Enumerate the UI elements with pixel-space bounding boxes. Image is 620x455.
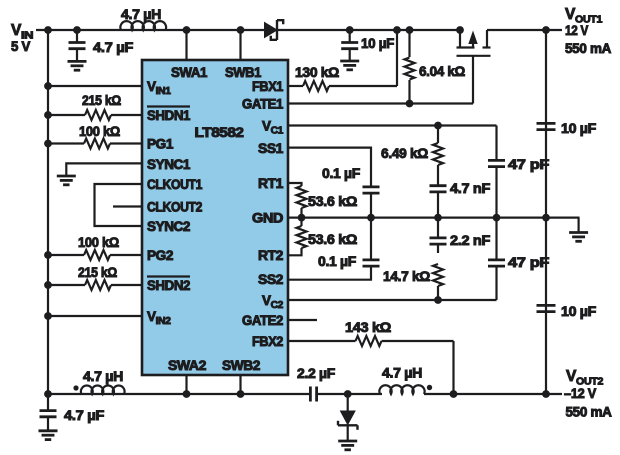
- wire VIN1: [48, 85, 142, 87]
- pin PG1 label: [147, 137, 174, 152]
- svg-text:0.1 µF: 0.1 µF: [322, 166, 360, 181]
- junction SWA2: [183, 390, 191, 398]
- pin SYNC2 label: [147, 219, 190, 234]
- junction GND-output-caps: [542, 214, 550, 222]
- pin FBX2 label: [252, 334, 283, 349]
- wire GATE2 stub: [288, 319, 317, 321]
- svg-text:550 mA: 550 mA: [565, 41, 612, 56]
- svg-text:4.7 nF: 4.7 nF: [450, 181, 490, 196]
- svg-text:100 kΩ: 100 kΩ: [79, 124, 120, 139]
- wire VC2: [288, 299, 497, 301]
- junction GND-SS: [367, 214, 375, 222]
- junction SHDN1: [44, 111, 52, 119]
- resistor R7 215k SHDN1: [48, 93, 142, 120]
- svg-text:VOUT2: VOUT2: [566, 368, 604, 387]
- svg-text:GND: GND: [252, 211, 284, 226]
- pin SWB2 label: [222, 358, 260, 373]
- svg-text:CLKOUT2: CLKOUT2: [147, 200, 202, 215]
- wire bottom rail mid: [317, 393, 382, 395]
- svg-text:215 kΩ: 215 kΩ: [82, 93, 121, 108]
- wire diode cathode to PMOS source: [277, 29, 460, 31]
- svg-text:PG1: PG1: [147, 137, 174, 152]
- op-amp U1 LT8582 body: [142, 60, 288, 375]
- pin SWA2 label: [168, 358, 206, 373]
- svg-text:GATE2: GATE2: [242, 313, 283, 328]
- svg-text:PG2: PG2: [147, 248, 173, 263]
- ground GND net: [569, 218, 588, 242]
- pin FBX1 label: [252, 79, 284, 94]
- svg-text:SS1: SS1: [258, 141, 284, 156]
- svg-text:2.2 nF: 2.2 nF: [450, 233, 490, 248]
- pin SHDN2 label: [147, 277, 190, 294]
- junction R2 top: [406, 26, 414, 34]
- pin SWA1 label: [171, 65, 208, 80]
- wire SYNC1 to ground: [66, 163, 142, 176]
- svg-text:LT8582: LT8582: [195, 125, 244, 140]
- capacitor C3 10uF out1: [537, 121, 597, 136]
- capacitor C11 2.2uF coupling: [297, 366, 335, 402]
- wire VIN top rail: [36, 29, 265, 31]
- ground C2: [340, 61, 359, 70]
- junction GND-RT: [298, 214, 306, 222]
- wire PMOS drain to VOUT1: [487, 29, 562, 31]
- wire SWB1 stub: [239, 30, 241, 60]
- capacitor C6 0.1uF SS1: [288, 148, 380, 218]
- svg-text:SWB2: SWB2: [222, 358, 260, 373]
- svg-text:FBX1: FBX1: [252, 79, 284, 94]
- junction VIN1: [44, 82, 52, 90]
- capacitor C10 10uF out2: [537, 304, 597, 319]
- wire GND pin: [288, 217, 580, 219]
- pin RT2 label: [258, 248, 283, 263]
- node VIN: [11, 22, 33, 54]
- pin VC1 label: [262, 119, 284, 137]
- junction VC2: [434, 296, 442, 304]
- svg-text:4.7 µH: 4.7 µH: [382, 366, 422, 381]
- pin GATE1 label: [242, 97, 284, 112]
- wire left input rail: [47, 30, 49, 394]
- svg-text:SHDN2: SHDN2: [147, 278, 190, 293]
- transistor Q1 PMOS: [457, 30, 491, 104]
- svg-text:10 µF: 10 µF: [561, 121, 596, 136]
- svg-text:SYNC1: SYNC1: [147, 157, 191, 172]
- svg-text:14.7 kΩ: 14.7 kΩ: [383, 269, 430, 284]
- inductor L1 4.7uH: [120, 7, 166, 30]
- node VOUT1: [542, 6, 611, 56]
- pin CLKOUT2 label: [147, 200, 202, 215]
- pin SHDN1 label: [147, 107, 191, 124]
- pin SS2 label: [258, 272, 283, 287]
- resistor R4 53.6k RT1: [288, 183, 357, 218]
- wire CLKOUT2 stub: [113, 205, 142, 207]
- junction FBX2 tap: [450, 390, 458, 398]
- svg-text:215 kΩ: 215 kΩ: [78, 265, 117, 280]
- wire SWA1 stub: [185, 30, 187, 60]
- wire bottom rail right: [424, 393, 562, 395]
- pin GATE2 label: [242, 313, 283, 328]
- svg-text:SS2: SS2: [258, 272, 283, 287]
- node VOUT2: [542, 368, 612, 420]
- svg-text:SWB1: SWB1: [225, 65, 262, 80]
- diode D2 schottky: [338, 394, 358, 441]
- resistor R6 14.7k comp2: [383, 264, 443, 300]
- svg-text:SWA1: SWA1: [171, 65, 208, 80]
- pin VIN1 label: [147, 79, 171, 97]
- svg-text:SWA2: SWA2: [168, 358, 206, 373]
- svg-text:CLKOUT1: CLKOUT1: [147, 177, 203, 192]
- svg-text:130 kΩ: 130 kΩ: [295, 65, 339, 80]
- capacitor C4 4.7nF comp1: [430, 181, 491, 218]
- svg-text:4.7 µF: 4.7 µF: [64, 408, 104, 423]
- resistor R2 6.04k gate: [405, 30, 466, 104]
- svg-text:GATE1: GATE1: [242, 97, 284, 112]
- svg-text:12 V: 12 V: [565, 23, 588, 38]
- junction SHDN2: [44, 281, 52, 289]
- capacitor C9 47pF ch2: [488, 218, 549, 300]
- svg-text:4.7 µF: 4.7 µF: [93, 40, 133, 55]
- svg-text:47 pF: 47 pF: [508, 255, 549, 270]
- pin SYNC1 label: [147, 157, 191, 172]
- resistor R10 215k SHDN2: [48, 265, 142, 290]
- pin VC2 label: [262, 293, 284, 311]
- svg-text:RT2: RT2: [258, 248, 283, 263]
- junction SWB2: [237, 390, 245, 398]
- wire bottom rail left: [48, 393, 310, 395]
- capacitor C12 4.7uF in2: [40, 394, 105, 431]
- svg-text:4.7 µH: 4.7 µH: [121, 7, 161, 22]
- svg-text:SHDN1: SHDN1: [147, 108, 191, 123]
- junction R2 gate: [406, 100, 414, 108]
- svg-text:5 V: 5 V: [11, 39, 30, 54]
- svg-text:RT1: RT1: [258, 176, 284, 191]
- pin RT1 label: [258, 176, 284, 191]
- diode D1 schottky: [265, 20, 284, 40]
- wire GATE1: [288, 102, 473, 104]
- pin SWB1 label: [225, 65, 262, 80]
- junction L1-SWA1: [183, 26, 191, 34]
- capacitor C7 0.1uF SS2: [288, 218, 380, 280]
- svg-text:6.49 kΩ: 6.49 kΩ: [381, 146, 428, 161]
- junction D2 node: [344, 390, 352, 398]
- junction Q1 source: [456, 26, 464, 34]
- wire VC1: [288, 124, 497, 126]
- ground C1: [68, 61, 87, 70]
- svg-text:53.6 kΩ: 53.6 kΩ: [308, 194, 357, 209]
- svg-text:6.04 kΩ: 6.04 kΩ: [419, 64, 465, 79]
- svg-text:53.6 kΩ: 53.6 kΩ: [308, 232, 357, 247]
- junction GND-comp: [434, 214, 442, 222]
- junction rail-bottom: [44, 390, 52, 398]
- junction VC1: [434, 122, 442, 130]
- inductor L3 4.7uH: [379, 366, 432, 395]
- wire CLKOUT1 to SYNC2 loop: [95, 184, 143, 226]
- junction SWB1: [237, 26, 245, 34]
- inductor L2 4.7uH: [73, 369, 124, 394]
- svg-text:0.1 µF: 0.1 µF: [318, 254, 356, 269]
- wire SWB2 stub: [239, 375, 241, 394]
- junction FBX1 rail: [393, 26, 401, 34]
- pin PG2 label: [147, 248, 173, 263]
- capacitor C1 4.7uF: [69, 30, 134, 61]
- svg-text:2.2 µF: 2.2 µF: [297, 366, 335, 381]
- pin VIN2 label: [147, 309, 171, 327]
- junction VIN: [44, 26, 52, 34]
- junction PG1: [44, 140, 52, 148]
- svg-text:–12 V: –12 V: [564, 386, 596, 401]
- ground D2: [338, 441, 357, 450]
- svg-text:SYNC2: SYNC2: [147, 219, 190, 234]
- resistor R3 6.49k comp1: [381, 126, 443, 185]
- pin CLKOUT1 label: [147, 177, 203, 192]
- resistor R9 100k PG2: [48, 235, 142, 260]
- wire VIN2: [48, 315, 142, 317]
- capacitor C8 2.2nF comp2: [430, 218, 491, 253]
- junction C2 top: [346, 26, 354, 34]
- capacitor C2 10uF: [341, 30, 394, 61]
- resistor R11 143k FBX2: [288, 320, 454, 394]
- svg-text:550 mA: 550 mA: [566, 405, 613, 420]
- junction PG2: [44, 251, 52, 259]
- U1 name LT8582: [195, 125, 244, 140]
- junction VIN2: [44, 312, 52, 320]
- pin GND label: [252, 211, 284, 226]
- svg-text:FBX2: FBX2: [252, 334, 283, 349]
- svg-text:10 µF: 10 µF: [361, 36, 394, 51]
- ground C12: [39, 431, 58, 440]
- svg-text:47 pF: 47 pF: [508, 157, 549, 172]
- svg-text:4.7 µH: 4.7 µH: [83, 369, 123, 384]
- svg-text:100 kΩ: 100 kΩ: [78, 235, 119, 250]
- ground SYNC1: [57, 176, 76, 185]
- svg-text:143 kΩ: 143 kΩ: [345, 320, 392, 335]
- resistor R5 53.6k RT2: [288, 218, 357, 256]
- junction GND-47p: [493, 214, 501, 222]
- wire SWA2 stub: [185, 375, 187, 394]
- pin SS1 label: [258, 141, 284, 156]
- resistor R1 130k FBX1: [288, 30, 397, 91]
- svg-text:10 µF: 10 µF: [561, 304, 596, 319]
- capacitor C5 47pF ch1: [488, 126, 549, 218]
- resistor R8 100k PG1: [48, 124, 142, 149]
- wire output rail right: [545, 30, 547, 394]
- junction C1 top: [73, 26, 81, 34]
